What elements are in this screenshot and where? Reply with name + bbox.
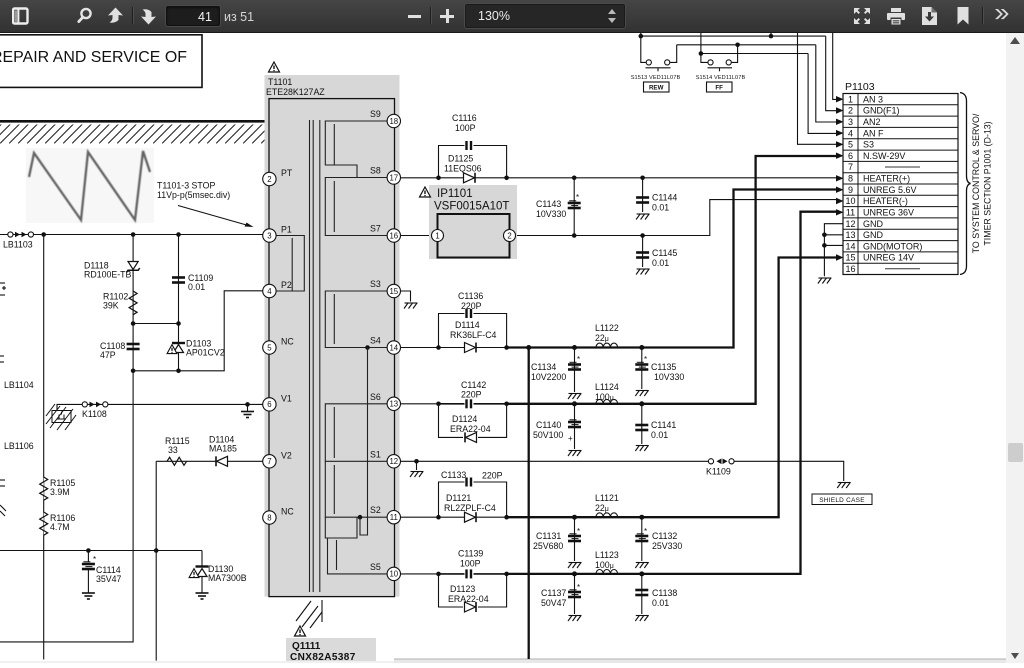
diode D1114 RK36LF-C4 bbox=[440, 320, 506, 353]
inductor L1124 100u bbox=[595, 382, 619, 404]
svg-text:FF: FF bbox=[715, 85, 723, 92]
svg-text:1: 1 bbox=[848, 94, 853, 104]
svg-text:Q1111: Q1111 bbox=[292, 641, 321, 652]
svg-text:NC: NC bbox=[281, 507, 294, 517]
wire to pin 1 AN 3 bbox=[833, 33, 837, 99]
winding S6-S1 bbox=[325, 404, 387, 462]
svg-text:S4: S4 bbox=[370, 336, 381, 346]
wire to pin 2 GND(F1) bbox=[826, 36, 837, 111]
svg-text:11Vp-p(5msec.div): 11Vp-p(5msec.div) bbox=[157, 190, 230, 200]
pin 7 V2 of T1101 bbox=[263, 450, 292, 468]
chassis hatch below T1101 bbox=[296, 600, 322, 628]
svg-text:2: 2 bbox=[267, 175, 271, 184]
pin 15 UNREG 14V of P1103 bbox=[845, 253, 914, 263]
separator bbox=[430, 7, 432, 24]
winding S2-S5 bbox=[325, 517, 387, 574]
svg-text:AN 3: AN 3 bbox=[863, 94, 883, 104]
svg-text:D1123: D1123 bbox=[450, 584, 475, 594]
svg-text:D1125: D1125 bbox=[448, 154, 473, 164]
svg-text:4.7M: 4.7M bbox=[50, 522, 70, 532]
svg-text:C1142: C1142 bbox=[461, 380, 486, 390]
svg-text:K1109: K1109 bbox=[706, 467, 731, 477]
capacitor C1142 220P on line bbox=[440, 380, 506, 408]
pin 7 NC of P1103 bbox=[848, 162, 920, 172]
ground at C1138 bbox=[635, 616, 649, 622]
pin 13 S6 of T1101 bbox=[370, 392, 400, 411]
label Q1111 bbox=[286, 638, 376, 663]
separator bbox=[132, 7, 134, 24]
winding S1-S2 bbox=[325, 461, 387, 517]
page bottom gray strip bbox=[394, 659, 1006, 663]
svg-text:LB1103: LB1103 bbox=[3, 240, 33, 250]
wire to pin 4 AN F bbox=[808, 54, 836, 134]
transformer core lines bbox=[310, 120, 320, 592]
svg-text:11EQS06: 11EQS06 bbox=[444, 164, 482, 174]
node R1102/C1109 junction row bbox=[131, 321, 181, 326]
zoom dropdown bbox=[465, 4, 625, 28]
capacitor C1108 47P bbox=[100, 341, 140, 360]
scrollbar down arrow bbox=[1011, 653, 1019, 659]
wire S1 net bbox=[401, 459, 709, 470]
wire to pin 3 AN2 bbox=[816, 45, 837, 122]
svg-text:C1132: C1132 bbox=[652, 531, 677, 541]
ground at C1141 bbox=[635, 446, 649, 452]
svg-text:100P: 100P bbox=[455, 123, 476, 133]
resistor R1106 4.7M bbox=[40, 512, 76, 535]
winding S3-S4 bbox=[325, 291, 387, 348]
svg-text:C1136: C1136 bbox=[458, 291, 483, 301]
more tools (chevron) icon bbox=[995, 9, 1012, 23]
label SHIELD CASE bbox=[812, 494, 872, 505]
svg-text:7: 7 bbox=[267, 457, 271, 466]
svg-text:UNREG 36V: UNREG 36V bbox=[863, 208, 914, 218]
pin 18 S9 of T1101 bbox=[370, 109, 400, 128]
svg-text:LB1104: LB1104 bbox=[4, 380, 34, 390]
svg-text:10V330: 10V330 bbox=[654, 372, 684, 382]
svg-text:GND: GND bbox=[863, 219, 884, 229]
svg-text:9: 9 bbox=[848, 185, 853, 195]
svg-text:220P: 220P bbox=[482, 471, 503, 481]
capacitor C1132 25V330 bbox=[635, 517, 682, 561]
svg-text:3.9M: 3.9M bbox=[50, 487, 70, 497]
pin 2 PT of T1101 bbox=[263, 168, 293, 186]
svg-text:*: * bbox=[577, 527, 580, 536]
svg-text:22μ: 22μ bbox=[595, 333, 609, 343]
svg-text:P1: P1 bbox=[281, 225, 292, 235]
node dots S4 loop bbox=[436, 345, 509, 350]
node dots S2 loop bbox=[436, 515, 509, 520]
capacitor C1139 100P on line bbox=[440, 549, 506, 579]
diode D1125 11EQS06 bbox=[444, 154, 482, 183]
warning triangle at Q1111 bbox=[295, 626, 306, 636]
pin 14 GND(MOTOR) of P1103 bbox=[845, 241, 922, 251]
capacitor C1143 10V330 bbox=[536, 178, 581, 236]
wire S8/HEATER(+) net bbox=[401, 176, 837, 181]
ground at C1137 bbox=[568, 616, 582, 622]
svg-text:S7: S7 bbox=[370, 224, 381, 234]
svg-text:10V330: 10V330 bbox=[536, 209, 566, 219]
ground at C1144 bbox=[636, 214, 650, 220]
winding S9-S8 bbox=[325, 121, 387, 178]
svg-text:MA7300B: MA7300B bbox=[208, 573, 247, 583]
next page (down arrow) icon bbox=[139, 7, 158, 25]
svg-text:UNREG 5.6V: UNREG 5.6V bbox=[863, 185, 917, 195]
svg-text:L1124: L1124 bbox=[595, 382, 619, 392]
svg-text:4: 4 bbox=[267, 287, 272, 296]
svg-text:5: 5 bbox=[267, 343, 272, 352]
wire S2 bold rail to pin 15 bbox=[507, 258, 837, 520]
wire D1118 branch vertical bbox=[0, 235, 133, 642]
svg-text:12: 12 bbox=[845, 219, 855, 229]
inductor bead LB1103 bbox=[3, 232, 34, 250]
svg-text:0.01: 0.01 bbox=[652, 258, 669, 268]
svg-text:13: 13 bbox=[845, 230, 855, 240]
ground at C1135 bbox=[635, 391, 649, 397]
svg-text:C1137: C1137 bbox=[541, 588, 566, 598]
capacitor C1141 0.01 bbox=[635, 404, 676, 444]
svg-text:K1108: K1108 bbox=[82, 409, 107, 419]
dropdown spinner arrows bbox=[605, 9, 619, 23]
wire bottom-left horizontal bbox=[0, 548, 202, 553]
capacitor C1144 0.01 bbox=[636, 178, 677, 213]
switch S1514 VED11L07B bbox=[696, 45, 746, 81]
wire S3 to ground bbox=[401, 291, 411, 302]
svg-text:2: 2 bbox=[507, 231, 511, 240]
svg-text:0.01: 0.01 bbox=[652, 203, 669, 213]
search (magnifier) icon bbox=[76, 6, 94, 26]
svg-text:S8: S8 bbox=[370, 166, 381, 176]
svg-text:S9: S9 bbox=[370, 109, 381, 119]
svg-text:HEATER(+): HEATER(+) bbox=[863, 174, 910, 184]
ground at C1114 bbox=[82, 593, 95, 599]
svg-text:UNREG 14V: UNREG 14V bbox=[863, 253, 914, 263]
svg-text:0.01: 0.01 bbox=[188, 282, 205, 292]
resistor R1115 33 bbox=[165, 436, 190, 465]
svg-text:8: 8 bbox=[848, 174, 853, 184]
print icon bbox=[887, 8, 905, 25]
ground at C1145 bbox=[636, 269, 650, 275]
svg-text:+: + bbox=[568, 434, 573, 443]
pin 15 S3 of T1101 bbox=[370, 279, 400, 298]
svg-text:220P: 220P bbox=[461, 301, 482, 311]
ground at C1140 bbox=[568, 451, 582, 457]
svg-text:RL2ZPLF-C4: RL2ZPLF-C4 bbox=[444, 503, 496, 513]
svg-text:13: 13 bbox=[389, 400, 398, 409]
svg-text:10: 10 bbox=[845, 196, 855, 206]
svg-text:REW: REW bbox=[649, 85, 664, 92]
svg-text:D1114: D1114 bbox=[455, 320, 480, 330]
zoom out (minus) icon bbox=[408, 15, 421, 18]
wire V2 net bbox=[156, 461, 263, 660]
svg-text:100μ: 100μ bbox=[595, 560, 614, 570]
pin 3 AN2 of P1103 bbox=[848, 117, 881, 127]
ground at C1134 bbox=[568, 394, 582, 400]
svg-text:1: 1 bbox=[435, 231, 439, 240]
winding S8-S7 bbox=[325, 178, 387, 236]
pin 8 HEATER(+) of P1103 bbox=[848, 174, 910, 184]
node dots S6 loop bbox=[436, 402, 509, 407]
diode D1124 ERA22-04 loop below bbox=[439, 404, 507, 443]
svg-text:ERA22-04: ERA22-04 bbox=[450, 424, 491, 434]
svg-text:8: 8 bbox=[267, 513, 271, 522]
ground at S1 bbox=[410, 472, 424, 478]
svg-text:10: 10 bbox=[389, 570, 398, 579]
svg-text:AP01CV2: AP01CV2 bbox=[186, 348, 225, 358]
svg-text:D1124: D1124 bbox=[452, 414, 477, 424]
zener diode D1103 AP01CV2 bbox=[167, 339, 225, 358]
svg-text:L1122: L1122 bbox=[595, 323, 619, 333]
svg-text:33: 33 bbox=[168, 445, 178, 455]
svg-text:C1144: C1144 bbox=[652, 193, 677, 203]
relay contact K1108 bbox=[82, 402, 108, 419]
IP1101 body box bbox=[438, 214, 510, 258]
pin 3 P1 of T1101 bbox=[263, 225, 292, 243]
pushbutton label FF bbox=[707, 82, 733, 92]
zoom in (plus) icon bbox=[440, 15, 454, 18]
pin 8 NC of T1101 bbox=[263, 507, 295, 525]
svg-text:6: 6 bbox=[848, 151, 853, 161]
separator bbox=[982, 7, 984, 24]
svg-text:LB1106: LB1106 bbox=[4, 441, 34, 451]
warning triangle at IP1101 bbox=[420, 187, 431, 197]
pin 5 NC of T1101 bbox=[263, 337, 295, 355]
wire P1 net (pin3 row) bbox=[0, 234, 263, 236]
scrollbar up arrow bbox=[1010, 37, 1020, 44]
svg-text:2: 2 bbox=[848, 106, 853, 116]
relay contact K1109 bbox=[706, 459, 734, 477]
wire bold branch down the page bbox=[528, 348, 530, 660]
bookmark icon bbox=[957, 7, 969, 25]
svg-text:ETE28K127AZ: ETE28K127AZ bbox=[266, 87, 325, 97]
svg-text:T1101-3 STOP: T1101-3 STOP bbox=[157, 181, 215, 191]
wire S7/HEATER(-) net bbox=[401, 200, 837, 238]
svg-text:CNX82A5387: CNX82A5387 bbox=[290, 652, 356, 663]
svg-text:22μ: 22μ bbox=[595, 503, 609, 513]
svg-text:6: 6 bbox=[267, 400, 271, 409]
svg-text:S1: S1 bbox=[370, 449, 381, 459]
wire C1109 branch vertical bbox=[178, 235, 180, 371]
ground at V1 bbox=[241, 412, 254, 418]
svg-text:*: * bbox=[576, 193, 579, 202]
pin 5 S3 of P1103 bbox=[848, 140, 874, 150]
svg-text:GND(F1): GND(F1) bbox=[863, 106, 900, 116]
svg-text:P1103: P1103 bbox=[845, 81, 875, 93]
svg-text:RK36LF-C4: RK36LF-C4 bbox=[450, 330, 497, 340]
connector entry arrows bbox=[836, 96, 844, 261]
svg-text:C1134: C1134 bbox=[531, 362, 556, 372]
sidebar toggle icon bbox=[12, 7, 29, 25]
zener diode D1118 RD100E-TB bbox=[84, 261, 140, 280]
switch S1513 VED11L07B bbox=[631, 36, 681, 81]
title box "REPAIR AND SERVICE OF" bbox=[0, 35, 202, 88]
svg-text:14: 14 bbox=[845, 241, 855, 251]
wire S4 bold rail to pin 9 bbox=[507, 190, 837, 351]
pin 2 GND(F1) of P1103 bbox=[848, 106, 900, 116]
pin 10 HEATER(-) of P1103 bbox=[845, 196, 907, 206]
pin 12 S1 of T1101 bbox=[370, 449, 400, 468]
ground at C1131 bbox=[568, 563, 582, 569]
wire junction row to pin4 bbox=[131, 291, 263, 373]
svg-text:HEATER(-): HEATER(-) bbox=[863, 196, 908, 206]
wire rail 1 (top) bbox=[639, 33, 826, 38]
wire rail 2 bbox=[677, 43, 816, 48]
capacitor C1133 220P loop above bbox=[439, 470, 507, 517]
svg-text:S3: S3 bbox=[863, 140, 874, 150]
wire to pin 5 S3 bbox=[798, 33, 837, 144]
svg-text:14: 14 bbox=[389, 343, 398, 352]
wire S5 bold rail to pin 11 bbox=[507, 212, 837, 577]
svg-text:L1121: L1121 bbox=[595, 493, 619, 503]
svg-text:10V2200: 10V2200 bbox=[531, 372, 566, 382]
svg-text:11: 11 bbox=[846, 208, 855, 218]
svg-text:25V330: 25V330 bbox=[652, 541, 682, 551]
svg-text:*: * bbox=[577, 355, 580, 364]
svg-text:V2: V2 bbox=[281, 450, 292, 460]
svg-text:11: 11 bbox=[390, 513, 398, 522]
page count label bbox=[224, 11, 254, 24]
capacitor C1137 50V47 bbox=[541, 574, 581, 614]
node junction dots on P1 wire bbox=[41, 232, 180, 237]
svg-text:AN F: AN F bbox=[863, 128, 884, 138]
resistor R1105 3.9M bbox=[40, 477, 76, 500]
chassis bold line bbox=[0, 120, 265, 123]
svg-text:GND: GND bbox=[863, 230, 884, 240]
svg-text:47P: 47P bbox=[100, 350, 116, 360]
svg-text:REPAIR AND SERVICE OF: REPAIR AND SERVICE OF bbox=[0, 49, 187, 66]
transformer body outline bbox=[269, 99, 395, 597]
wire S4 net thin segment bbox=[401, 347, 439, 349]
chassis clamp symbol (hatched box) bbox=[46, 404, 76, 430]
ground at GND bus bbox=[818, 278, 832, 284]
capacitor C1140 50V100 bbox=[533, 404, 581, 449]
transformer T1101 gray backdrop bbox=[265, 75, 400, 597]
svg-text:16: 16 bbox=[389, 231, 398, 240]
inductor L1123 100u bbox=[595, 550, 619, 574]
svg-text:GND(MOTOR): GND(MOTOR) bbox=[863, 241, 922, 251]
pin 16 S7 of T1101 bbox=[370, 224, 400, 243]
ground at K1109 bbox=[837, 483, 851, 489]
diode D1123 ERA22-04 loop below bbox=[439, 574, 507, 612]
svg-text:C1133: C1133 bbox=[441, 470, 466, 480]
svg-text:17: 17 bbox=[389, 173, 398, 182]
svg-text:15: 15 bbox=[389, 287, 398, 296]
IC IP1101 backdrop bbox=[429, 185, 517, 259]
svg-text:C1139: C1139 bbox=[458, 549, 483, 559]
svg-text:16: 16 bbox=[845, 264, 855, 274]
svg-text:TO SYSTEM CONTROL & SERVO/: TO SYSTEM CONTROL & SERVO/ bbox=[971, 113, 981, 253]
wire S6 net thin segment bbox=[401, 403, 439, 405]
svg-text:P2: P2 bbox=[281, 280, 292, 290]
svg-text:35V47: 35V47 bbox=[96, 574, 122, 584]
capacitor C1109 0.01 bbox=[172, 273, 213, 292]
diode D1104 MA185 bbox=[209, 435, 237, 467]
svg-text:IP1101: IP1101 bbox=[437, 188, 473, 200]
svg-text:N.SW-29V: N.SW-29V bbox=[863, 151, 905, 161]
capacitor C1136 220P loop bbox=[439, 291, 507, 348]
svg-text:50V100: 50V100 bbox=[533, 430, 563, 440]
annotation arrow bbox=[178, 206, 254, 228]
svg-text:T1101: T1101 bbox=[268, 77, 292, 87]
svg-text:C1138: C1138 bbox=[652, 588, 677, 598]
pin 4 AN F of P1103 bbox=[848, 128, 884, 138]
svg-text:S1514 VED11L07B: S1514 VED11L07B bbox=[696, 75, 746, 81]
pin 13 GND of P1103 bbox=[845, 230, 883, 240]
svg-text:RD100E-TB: RD100E-TB bbox=[84, 270, 132, 280]
svg-text:VSF0015A10T: VSF0015A10T bbox=[434, 201, 509, 213]
wire left column bbox=[43, 235, 45, 660]
pin 1 of IP1101 bbox=[432, 230, 444, 242]
svg-text:AN2: AN2 bbox=[863, 117, 881, 127]
capacitor C1116 100P snubber loop bbox=[439, 113, 507, 178]
svg-text:*: * bbox=[644, 527, 647, 536]
svg-text:PT: PT bbox=[281, 168, 293, 178]
pin 6 N.SW-29V of P1103 bbox=[848, 151, 905, 161]
svg-text:S6: S6 bbox=[370, 392, 381, 402]
warning triangle at T1101 bbox=[269, 62, 280, 72]
svg-text:15: 15 bbox=[845, 253, 855, 263]
pin 4 P2 of T1101 bbox=[263, 280, 292, 298]
svg-text:100μ: 100μ bbox=[595, 392, 614, 402]
svg-text:ERA22-04: ERA22-04 bbox=[448, 594, 489, 604]
oscilloscope sawtooth waveform T1101-3 bbox=[26, 148, 154, 223]
pushbutton label REW bbox=[644, 82, 670, 92]
capacitor C1114 35V47 bbox=[82, 551, 122, 594]
svg-text:NC: NC bbox=[281, 337, 294, 347]
pin 14 S4 of T1101 bbox=[370, 336, 400, 355]
pin 11 S2 of T1101 bbox=[370, 505, 400, 524]
pin 10 S5 of T1101 bbox=[370, 562, 400, 581]
svg-text:7: 7 bbox=[848, 162, 853, 172]
node V1 ground tap bbox=[245, 402, 250, 411]
svg-text:18: 18 bbox=[389, 117, 398, 126]
inductor L1121 22u bbox=[595, 493, 619, 517]
svg-text:12: 12 bbox=[389, 457, 398, 466]
connector P1103 table bbox=[843, 94, 958, 275]
svg-text:4: 4 bbox=[848, 128, 853, 138]
svg-text:*: * bbox=[577, 583, 580, 592]
svg-text:L1123: L1123 bbox=[595, 550, 619, 560]
pin 1 AN 3 of P1103 bbox=[848, 94, 883, 104]
svg-text:SHIELD CASE: SHIELD CASE bbox=[819, 497, 865, 504]
waveform annotation text bbox=[157, 181, 230, 201]
svg-text:50V47: 50V47 bbox=[541, 598, 567, 608]
download icon bbox=[922, 7, 937, 25]
svg-text:S2: S2 bbox=[370, 505, 381, 515]
svg-text:5: 5 bbox=[848, 140, 853, 150]
svg-text:C1143: C1143 bbox=[536, 199, 561, 209]
wire GND bus pins 12-14 bbox=[822, 224, 843, 277]
cut-off component fragments at left edge bbox=[0, 283, 6, 516]
capacitor C1138 0.01 bbox=[635, 574, 677, 614]
zener diode D1130 MA7300B bbox=[189, 551, 247, 594]
pin 16 NC of P1103 bbox=[845, 264, 920, 274]
winding P1-P2 bbox=[276, 236, 304, 292]
diode D1121 RL2ZPLF-C4 bbox=[440, 493, 506, 522]
svg-text:25V680: 25V680 bbox=[533, 541, 563, 551]
brace bracket bbox=[960, 93, 971, 275]
node dots S5 loop bbox=[436, 572, 509, 577]
wire rail 3 bbox=[699, 33, 808, 56]
page number input bbox=[166, 6, 220, 26]
pin 6 V1 of T1101 bbox=[263, 393, 292, 411]
svg-text:3: 3 bbox=[267, 231, 271, 240]
svg-text:*: * bbox=[93, 555, 96, 564]
pin 17 S8 of T1101 bbox=[370, 166, 400, 185]
ground at C1132 bbox=[635, 563, 649, 569]
wire S2 net thin segment bbox=[401, 516, 439, 518]
svg-text:0.01: 0.01 bbox=[652, 598, 669, 608]
svg-text:39K: 39K bbox=[103, 301, 119, 311]
